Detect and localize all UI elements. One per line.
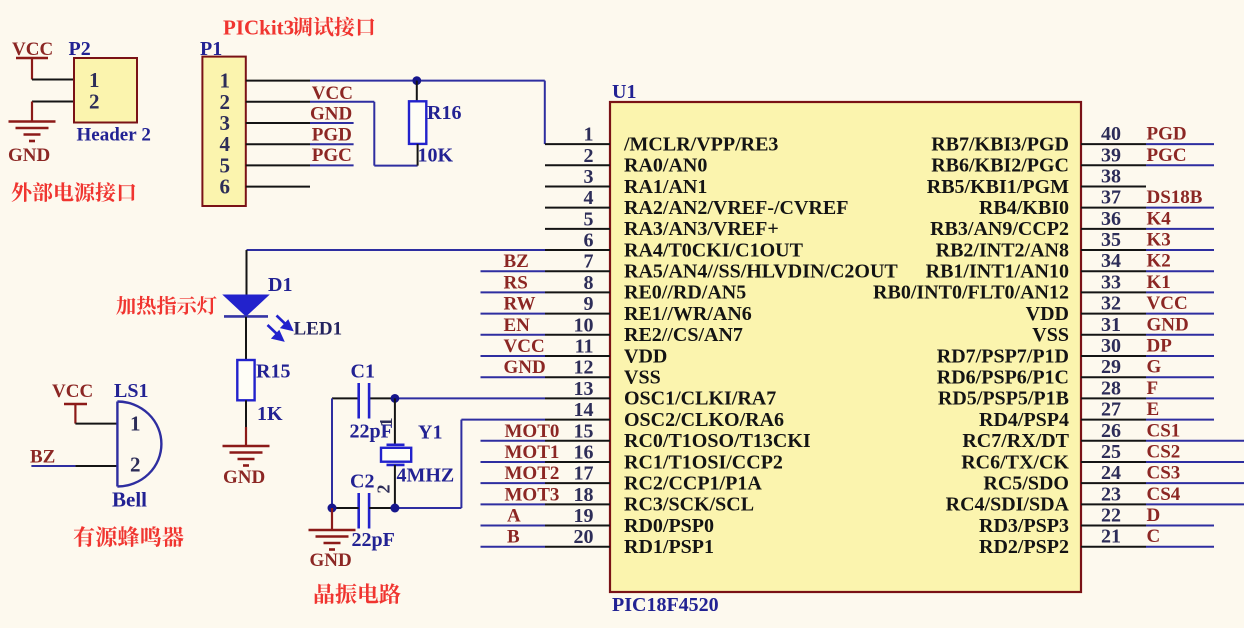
- svg-text:RD0/PSP0: RD0/PSP0: [624, 515, 714, 537]
- svg-text:RB3/AN9/CCP2: RB3/AN9/CCP2: [930, 218, 1069, 240]
- svg-text:C: C: [1147, 526, 1161, 547]
- svg-text:K3: K3: [1147, 230, 1171, 251]
- svg-text:/MCLR/VPP/RE3: /MCLR/VPP/RE3: [623, 133, 778, 155]
- svg-text:RC7/RX/DT: RC7/RX/DT: [962, 430, 1069, 452]
- svg-text:DP: DP: [1147, 336, 1173, 357]
- svg-text:RA0/AN0: RA0/AN0: [624, 155, 707, 177]
- svg-text:MOT0: MOT0: [505, 421, 560, 442]
- svg-text:10: 10: [574, 314, 594, 336]
- svg-text:RS: RS: [504, 272, 528, 293]
- svg-text:VCC: VCC: [504, 336, 545, 357]
- svg-text:RA5/AN4//SS/HLVDIN/C2OUT: RA5/AN4//SS/HLVDIN/C2OUT: [624, 261, 898, 283]
- wire net CS2 (U1.25): [1146, 461, 1244, 463]
- svg-text:RE0//RD/AN5: RE0//RD/AN5: [624, 282, 746, 304]
- svg-text:VSS: VSS: [624, 366, 661, 388]
- wire net K4 (U1.36): [1146, 228, 1214, 230]
- svg-text:BZ: BZ: [30, 447, 55, 468]
- svg-text:VDD: VDD: [624, 345, 667, 367]
- svg-text:RB7/KBI3/PGD: RB7/KBI3/PGD: [931, 133, 1069, 155]
- svg-text:23: 23: [1101, 483, 1121, 505]
- svg-text:21: 21: [1101, 526, 1121, 548]
- svg-text:1K: 1K: [257, 403, 283, 425]
- svg-text:VCC: VCC: [312, 83, 353, 104]
- pin U1.34: [1081, 250, 1146, 272]
- svg-text:VCC: VCC: [1147, 293, 1188, 314]
- pin P1.3: [246, 122, 310, 124]
- wire GND stem (P2): [31, 102, 33, 122]
- svg-text:25: 25: [1101, 441, 1121, 463]
- svg-text:1: 1: [376, 418, 396, 427]
- wire R15 to GND: [245, 427, 247, 446]
- svg-text:RD5/PSP5/P1B: RD5/PSP5/P1B: [938, 388, 1069, 410]
- svg-text:17: 17: [574, 463, 594, 485]
- svg-text:CS2: CS2: [1147, 441, 1181, 462]
- svg-text:7: 7: [584, 251, 594, 273]
- power symbol VCC (P2): [12, 39, 53, 80]
- svg-text:RD2/PSP2: RD2/PSP2: [979, 536, 1069, 558]
- note PICkit3调试接口: [223, 16, 374, 40]
- svg-text:Bell: Bell: [112, 488, 147, 512]
- svg-text:12: 12: [574, 357, 594, 379]
- ground P2: [9, 121, 56, 142]
- note 外部电源接口: [12, 182, 136, 202]
- pin U1.13: [545, 378, 610, 400]
- wire U1.6 to D1: [247, 250, 546, 295]
- wire net CS3 (U1.24): [1146, 482, 1244, 484]
- svg-text:VCC: VCC: [52, 381, 93, 402]
- wire net MOT2 (U1.17): [481, 482, 546, 484]
- wire net VCC (U1.32): [1146, 313, 1214, 315]
- svg-text:RC2/CCP1/P1A: RC2/CCP1/P1A: [624, 472, 762, 494]
- power symbol VCC (LS1): [52, 381, 93, 424]
- svg-text:3: 3: [584, 166, 594, 188]
- junction Y1 bottom: [390, 504, 399, 513]
- pin U1.37: [1081, 187, 1146, 209]
- svg-text:K4: K4: [1147, 208, 1172, 229]
- wire net E (U1.27): [1146, 419, 1214, 421]
- svg-text:6: 6: [584, 230, 594, 252]
- svg-text:RA1/AN1: RA1/AN1: [624, 176, 707, 198]
- op-amp/IC U1 body: [610, 102, 1081, 592]
- pin P1.6: [246, 186, 310, 188]
- svg-text:LS1: LS1: [114, 380, 148, 402]
- svg-text:1: 1: [584, 124, 594, 146]
- svg-text:35: 35: [1101, 229, 1121, 251]
- svg-text:P2: P2: [69, 38, 91, 60]
- pin U1.6: [545, 230, 610, 252]
- svg-text:MOT1: MOT1: [505, 442, 560, 463]
- pin P1.2: [246, 101, 310, 103]
- svg-text:GND: GND: [310, 550, 352, 571]
- svg-text:13: 13: [574, 378, 594, 400]
- capacitor C1: [359, 383, 369, 419]
- svg-text:GND: GND: [223, 467, 265, 488]
- svg-text:14: 14: [574, 399, 594, 421]
- wire net PGC (U1.39): [1146, 164, 1214, 166]
- pin U1.26: [1081, 420, 1146, 442]
- svg-text:30: 30: [1101, 335, 1121, 357]
- wire BZ net to LS1 pin2: [31, 465, 117, 467]
- pin U1.19: [545, 505, 610, 527]
- svg-text:1: 1: [130, 412, 141, 436]
- pin U1.4: [545, 187, 610, 209]
- svg-text:LED1: LED1: [294, 319, 343, 340]
- svg-text:CS3: CS3: [1147, 463, 1181, 484]
- svg-text:31: 31: [1101, 314, 1121, 336]
- svg-text:2: 2: [130, 453, 141, 477]
- svg-text:PGC: PGC: [1147, 145, 1187, 166]
- svg-text:RC1/T1OSI/CCP2: RC1/T1OSI/CCP2: [624, 451, 783, 473]
- pin U1.27: [1081, 399, 1146, 421]
- wire PGD net P1.4: [310, 143, 354, 145]
- svg-text:G: G: [1147, 357, 1162, 378]
- svg-text:37: 37: [1101, 187, 1121, 209]
- pin U1.10: [545, 314, 610, 336]
- svg-text:D1: D1: [268, 274, 292, 296]
- pin U1.31: [1081, 314, 1146, 336]
- junction on MCLR net at R16: [412, 76, 421, 85]
- wire net VCC (U1.11): [481, 355, 546, 357]
- svg-text:RD4/PSP4: RD4/PSP4: [979, 409, 1069, 431]
- svg-text:K1: K1: [1147, 272, 1171, 293]
- svg-text:CS4: CS4: [1147, 484, 1181, 505]
- pin U1.12: [545, 357, 610, 379]
- pin U1.5: [545, 208, 610, 230]
- wire net D (U1.22): [1146, 525, 1214, 527]
- svg-text:22: 22: [1101, 505, 1121, 527]
- wire net K2 (U1.34): [1146, 270, 1214, 272]
- svg-text:33: 33: [1101, 271, 1121, 293]
- wire P2 pin1: [32, 79, 74, 81]
- pin U1.9: [545, 293, 610, 315]
- svg-text:9: 9: [584, 293, 594, 315]
- pin U1.21: [1081, 526, 1146, 548]
- note 有源蜂鸣器: [74, 526, 184, 547]
- svg-text:D: D: [1147, 505, 1161, 526]
- wire net B (U1.20): [481, 546, 546, 548]
- resistor R16: [409, 81, 426, 166]
- wire net MOT1 (U1.16): [481, 461, 546, 463]
- pin U1.2: [545, 145, 610, 167]
- wire net MOT0 (U1.15): [481, 440, 546, 442]
- svg-text:RB1/INT1/AN10: RB1/INT1/AN10: [926, 261, 1069, 283]
- svg-text:RB6/KBI2/PGC: RB6/KBI2/PGC: [931, 155, 1069, 177]
- svg-text:R15: R15: [256, 361, 290, 383]
- svg-text:RC6/TX/CK: RC6/TX/CK: [961, 451, 1069, 473]
- svg-text:11: 11: [575, 336, 594, 358]
- pin P1.1: [246, 80, 310, 82]
- svg-text:Header 2: Header 2: [77, 125, 151, 146]
- svg-text:36: 36: [1101, 208, 1121, 230]
- svg-text:4: 4: [584, 187, 594, 209]
- svg-text:PGC: PGC: [312, 145, 352, 166]
- svg-text:RC4/SDI/SDA: RC4/SDI/SDA: [946, 494, 1070, 516]
- pin U1.11: [545, 336, 610, 358]
- ground XTAL: [309, 529, 356, 550]
- connector P2: [74, 58, 137, 123]
- connector P1: [202, 57, 245, 206]
- pin U1.35: [1081, 229, 1146, 251]
- note 加热指示灯: [116, 296, 216, 315]
- svg-text:VSS: VSS: [1032, 324, 1069, 346]
- svg-text:PIC18F4520: PIC18F4520: [612, 594, 719, 616]
- svg-text:MOT3: MOT3: [505, 484, 560, 505]
- svg-text:R16: R16: [427, 102, 461, 124]
- svg-text:22pF: 22pF: [352, 529, 395, 551]
- wire PGC net P1.5: [310, 164, 354, 166]
- pin U1.36: [1081, 208, 1146, 230]
- svg-text:32: 32: [1101, 293, 1121, 315]
- LED arrows: [268, 316, 292, 341]
- svg-text:OSC2/CLKO/RA6: OSC2/CLKO/RA6: [624, 409, 784, 431]
- svg-text:15: 15: [574, 420, 594, 442]
- resistor R15: [237, 360, 254, 427]
- wire net F (U1.28): [1146, 397, 1214, 399]
- svg-text:RC5/SDO: RC5/SDO: [983, 472, 1069, 494]
- svg-text:RA3/AN3/VREF+: RA3/AN3/VREF+: [624, 218, 779, 240]
- svg-text:40: 40: [1101, 123, 1121, 145]
- pin U1.1: [545, 124, 610, 146]
- svg-text:GND: GND: [310, 104, 352, 125]
- wire net GND (U1.12): [481, 376, 546, 378]
- pin U1.14: [545, 399, 610, 421]
- pin U1.18: [545, 484, 610, 506]
- LED D1: [224, 295, 269, 316]
- pin U1.7: [545, 251, 610, 273]
- svg-text:34: 34: [1101, 250, 1121, 272]
- pin U1.24: [1081, 462, 1146, 484]
- svg-text:PGD: PGD: [1147, 124, 1187, 145]
- junction OSC1/Y1: [391, 394, 400, 403]
- svg-text:2: 2: [584, 145, 594, 167]
- pin U1.8: [545, 272, 610, 294]
- svg-text:RD7/PSP7/P1D: RD7/PSP7/P1D: [937, 345, 1069, 367]
- wire net RW (U1.9): [481, 313, 546, 315]
- buzzer LS1: [117, 402, 161, 487]
- ground R15: [223, 445, 270, 466]
- pin U1.29: [1081, 356, 1146, 378]
- wire VCC net: P1.2 to R16 bottom: [310, 102, 418, 166]
- wire net A (U1.19): [481, 525, 546, 527]
- pin U1.33: [1081, 271, 1146, 293]
- svg-text:RC0/T1OSO/T13CKI: RC0/T1OSO/T13CKI: [624, 430, 811, 452]
- svg-text:Y1: Y1: [418, 422, 442, 444]
- svg-text:PGD: PGD: [312, 125, 352, 146]
- wire net C (U1.21): [1146, 546, 1214, 548]
- pin U1.38: [1081, 165, 1146, 187]
- pin U1.15: [545, 420, 610, 442]
- svg-text:RA2/AN2/VREF-/CVREF: RA2/AN2/VREF-/CVREF: [624, 197, 848, 219]
- svg-text:F: F: [1147, 378, 1159, 399]
- svg-text:C2: C2: [350, 471, 374, 493]
- svg-text:GND: GND: [504, 357, 546, 378]
- svg-text:4MHZ: 4MHZ: [397, 465, 455, 487]
- wire net BZ (U1.7): [481, 270, 546, 272]
- svg-text:VDD: VDD: [1026, 303, 1069, 325]
- wire net GND (U1.31): [1146, 334, 1214, 336]
- svg-text:RE2//CS/AN7: RE2//CS/AN7: [624, 324, 743, 346]
- pin U1.39: [1081, 144, 1146, 166]
- svg-text:E: E: [1147, 399, 1160, 420]
- svg-text:RD1/PSP1: RD1/PSP1: [624, 536, 714, 558]
- wire P2 pin2: [32, 101, 74, 103]
- svg-text:EN: EN: [504, 315, 531, 336]
- capacitor C2: [359, 493, 369, 529]
- wire net G (U1.29): [1146, 376, 1214, 378]
- wire net PGD (U1.40): [1146, 143, 1214, 145]
- pin P1.5: [246, 164, 310, 166]
- pin U1.20: [545, 526, 610, 548]
- svg-text:20: 20: [574, 526, 594, 548]
- pin U1.28: [1081, 377, 1146, 399]
- svg-text:1: 1: [89, 68, 100, 92]
- svg-text:DS18B: DS18B: [1147, 187, 1203, 208]
- svg-text:U1: U1: [612, 81, 636, 103]
- wire GND net P1.3: [310, 122, 354, 124]
- svg-text:27: 27: [1101, 399, 1121, 421]
- wire C2 to GND: [331, 508, 333, 530]
- wire left leg (C1/C2 common): [331, 398, 333, 508]
- pin U1.23: [1081, 483, 1146, 505]
- wire LS1 pin1: [75, 423, 117, 425]
- wire net CS1 (U1.26): [1146, 440, 1244, 442]
- svg-text:19: 19: [574, 505, 594, 527]
- wire net CS4 (U1.23): [1146, 503, 1244, 505]
- wire net K3 (U1.35): [1146, 249, 1214, 251]
- wire MCLR net: P1.1 to R16 top and chip pin1: [310, 81, 545, 145]
- svg-text:RB2/INT2/AN8: RB2/INT2/AN8: [936, 239, 1069, 261]
- crystal Y1: [381, 398, 411, 508]
- wire net MOT3 (U1.18): [481, 503, 546, 505]
- wire net K1 (U1.33): [1146, 291, 1214, 293]
- svg-text:RE1//WR/AN6: RE1//WR/AN6: [624, 303, 752, 325]
- svg-text:5: 5: [584, 208, 594, 230]
- svg-text:2: 2: [89, 90, 100, 114]
- wire net RS (U1.8): [481, 291, 546, 293]
- pin U1.17: [545, 463, 610, 485]
- svg-text:10K: 10K: [418, 145, 454, 167]
- svg-text:PICkit3: PICkit3: [223, 16, 294, 40]
- pin U1.22: [1081, 505, 1146, 527]
- svg-text:26: 26: [1101, 420, 1121, 442]
- pin U1.3: [545, 166, 610, 188]
- svg-text:RA4/T0CKI/C1OUT: RA4/T0CKI/C1OUT: [624, 239, 804, 261]
- svg-text:GND: GND: [1147, 314, 1189, 335]
- svg-text:C1: C1: [351, 361, 375, 383]
- pin U1.16: [545, 441, 610, 463]
- svg-text:RC3/SCK/SCL: RC3/SCK/SCL: [624, 494, 754, 516]
- wire net DS18B (U1.37): [1146, 207, 1214, 209]
- svg-text:16: 16: [574, 441, 594, 463]
- pin P1.4: [246, 143, 310, 145]
- pin U1.25: [1081, 441, 1146, 463]
- svg-text:GND: GND: [8, 145, 50, 166]
- svg-text:OSC1/CLKI/RA7: OSC1/CLKI/RA7: [624, 388, 776, 410]
- pin U1.32: [1081, 293, 1146, 315]
- svg-text:28: 28: [1101, 377, 1121, 399]
- junction C2/GND: [328, 504, 337, 513]
- svg-text:MOT2: MOT2: [505, 463, 560, 484]
- svg-text:38: 38: [1101, 165, 1121, 187]
- svg-text:K2: K2: [1147, 251, 1171, 272]
- svg-text:RW: RW: [504, 294, 536, 315]
- svg-text:RD3/PSP3: RD3/PSP3: [979, 515, 1069, 537]
- svg-text:B: B: [507, 527, 520, 548]
- wire net DP (U1.30): [1146, 355, 1214, 357]
- note 晶振电路: [315, 583, 401, 604]
- wire D1 to R15: [245, 317, 247, 360]
- svg-text:2: 2: [374, 485, 394, 494]
- svg-text:24: 24: [1101, 462, 1121, 484]
- pin U1.40: [1081, 123, 1146, 145]
- svg-text:BZ: BZ: [504, 251, 529, 272]
- wire net EN (U1.10): [481, 334, 546, 336]
- wire OSC1 net (row13): [332, 397, 545, 399]
- svg-text:18: 18: [574, 484, 594, 506]
- wire OSC2 bottom net: [332, 420, 545, 508]
- svg-text:RD6/PSP6/P1C: RD6/PSP6/P1C: [937, 366, 1069, 388]
- svg-text:CS1: CS1: [1147, 420, 1181, 441]
- svg-text:RB4/KBI0: RB4/KBI0: [979, 197, 1069, 219]
- svg-text:29: 29: [1101, 356, 1121, 378]
- svg-text:RB0/INT0/FLT0/AN12: RB0/INT0/FLT0/AN12: [873, 282, 1069, 304]
- svg-text:6: 6: [220, 175, 231, 199]
- svg-text:39: 39: [1101, 144, 1121, 166]
- svg-text:8: 8: [584, 272, 594, 294]
- svg-text:A: A: [507, 506, 521, 527]
- pin U1.30: [1081, 335, 1146, 357]
- svg-text:RB5/KBI1/PGM: RB5/KBI1/PGM: [927, 176, 1069, 198]
